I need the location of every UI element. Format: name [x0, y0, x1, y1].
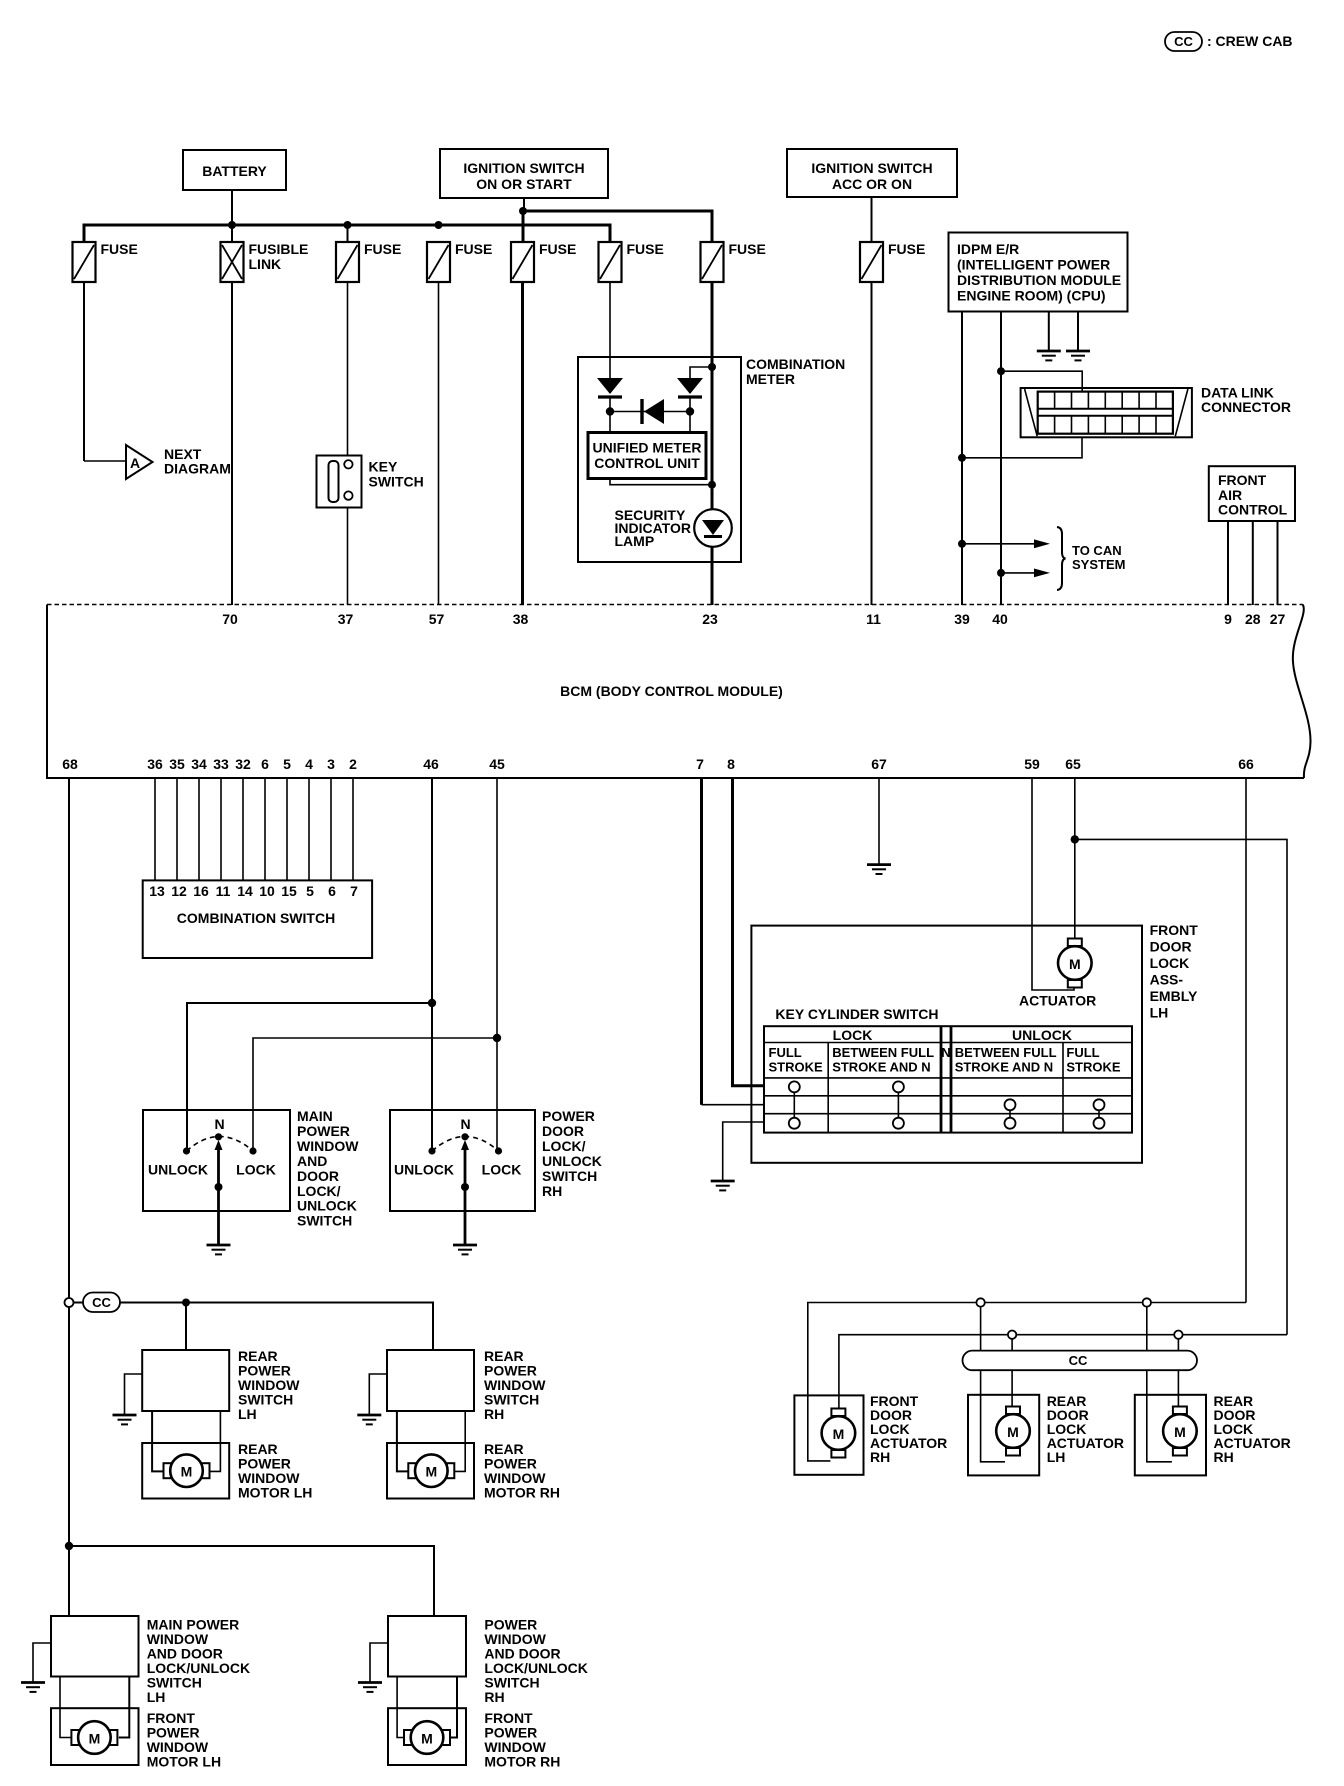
svg-text:LH: LH [1150, 1005, 1169, 1021]
svg-text:A: A [130, 455, 140, 471]
fusible link [221, 241, 309, 282]
svg-text:32: 32 [235, 756, 251, 772]
svg-text:FRONT: FRONT [1150, 922, 1199, 938]
BCM body control module box [47, 605, 1311, 779]
motor front power window LH [71, 1721, 117, 1754]
wire ignition to fuse5 [522, 211, 525, 242]
wire to next-diagram arrow [84, 460, 126, 462]
svg-text:RH: RH [870, 1449, 890, 1465]
svg-text:COMBINATION: COMBINATION [746, 356, 845, 372]
wire fuse3 stub [347, 225, 349, 242]
svg-text:FUSE: FUSE [888, 241, 925, 257]
wire IDPM ground stub 2 [1077, 312, 1079, 352]
svg-text:16: 16 [193, 883, 209, 899]
svg-text:12: 12 [171, 883, 187, 899]
wire fuse7 to pin23 [711, 282, 714, 605]
wire front air control to pin28 [1252, 521, 1254, 605]
svg-text:WINDOW: WINDOW [297, 1138, 359, 1154]
svg-text:IGNITION SWITCH: IGNITION SWITCH [811, 160, 932, 176]
svg-text:UNLOCK: UNLOCK [1012, 1027, 1072, 1043]
svg-text:65: 65 [1065, 756, 1081, 772]
node front feed junction [65, 1542, 73, 1550]
front power window motor LH box [51, 1708, 221, 1769]
wire fuse4 to pin57 [438, 282, 440, 605]
svg-text:N: N [214, 1116, 224, 1132]
svg-text:BCM (BODY CONTROL MODULE): BCM (BODY CONTROL MODULE) [560, 683, 783, 699]
ground main switch LH [21, 1683, 45, 1692]
wire key switch to pin37 [347, 508, 349, 606]
wire ignition acc feed [871, 198, 873, 242]
wire pin6 to combination switch [264, 778, 266, 880]
fuse F3 [336, 241, 401, 282]
svg-text:FUSE: FUSE [364, 241, 401, 257]
svg-text:15: 15 [281, 883, 297, 899]
legend CC crew cab [1165, 32, 1293, 51]
wire fuse8 to pin11 [871, 282, 873, 605]
motor front door lock actuator RH [822, 1409, 856, 1458]
svg-text:(INTELLIGENT POWER: (INTELLIGENT POWER [957, 257, 1110, 273]
wire IDPM to pin40 [1000, 312, 1002, 606]
node CC branch circle on pin68 wire [65, 1298, 74, 1307]
svg-text:34: 34 [191, 756, 207, 772]
IDPM E/R box [949, 233, 1128, 312]
motor rear power window LH [164, 1454, 210, 1487]
svg-text:13: 13 [149, 883, 165, 899]
svg-text:CONTROL: CONTROL [1218, 502, 1288, 518]
svg-text:FUSE: FUSE [101, 241, 138, 257]
wire diode row [610, 411, 690, 413]
svg-text:2: 2 [349, 756, 357, 772]
key switch [317, 456, 424, 508]
brace to CAN system [1057, 527, 1125, 590]
svg-text:FUSE: FUSE [729, 241, 766, 257]
svg-text:RH: RH [542, 1183, 562, 1199]
svg-text:LH: LH [238, 1406, 257, 1422]
front door lock actuator RH box [794, 1393, 947, 1475]
power window and door lock unlock switch RH box [388, 1616, 588, 1705]
node pin39 dlc junction [958, 454, 966, 462]
svg-text:MOTOR RH: MOTOR RH [484, 1485, 560, 1501]
wire pin4 to combination switch [308, 778, 310, 880]
wire control unit to pin23 line [610, 479, 712, 485]
wire meter right branch [690, 367, 712, 378]
svg-text:ACC OR ON: ACC OR ON [832, 176, 912, 192]
fuse F1 [73, 241, 138, 282]
fuse F8 [860, 241, 925, 282]
ground pin67 [867, 865, 891, 874]
wire key cylinder ground row [723, 1122, 764, 1181]
wire main switch LH to motor left [60, 1677, 72, 1738]
ground rear switch RH [357, 1415, 381, 1424]
CC crew cab marker left [83, 1293, 120, 1313]
node pin65 branch [1071, 835, 1079, 843]
svg-text:CONTROL UNIT: CONTROL UNIT [594, 455, 700, 471]
wire main switch LH to motor right [119, 1677, 130, 1738]
svg-text:RH: RH [484, 1689, 504, 1705]
wire pin68 down [68, 778, 70, 1616]
node meter top junction [708, 363, 716, 371]
wire pin32 to combination switch [242, 778, 244, 880]
svg-text:COMBINATION SWITCH: COMBINATION SWITCH [177, 910, 335, 926]
ground key cylinder switch [711, 1181, 735, 1190]
svg-text:KEY: KEY [369, 459, 398, 475]
front power window motor RH box [388, 1708, 560, 1769]
svg-text:ON OR START: ON OR START [476, 176, 572, 192]
combination switch box [143, 880, 372, 958]
wire switch RH ground stub [370, 1643, 388, 1683]
wire pin5 to combination switch [286, 778, 288, 880]
wire IDPM ground stub 1 [1048, 312, 1050, 352]
ground switch RH bottom [358, 1683, 382, 1692]
node battery bus junctions [228, 221, 443, 229]
wire IDPM to pin39 [961, 312, 963, 606]
svg-text:4: 4 [305, 756, 313, 772]
wire main switch to ground [217, 1211, 220, 1245]
ground IDPM 2 [1066, 351, 1090, 360]
svg-text:DOOR: DOOR [297, 1168, 339, 1184]
wire pin65 branch right [1075, 839, 1287, 1334]
fuse F4 [427, 241, 492, 282]
wire rear actuator RH top feed [1177, 1339, 1179, 1407]
rear power window motor LH box [142, 1441, 312, 1501]
node cc circle upper bus 2 [1143, 1298, 1151, 1306]
wire main switch LH ground stub [33, 1643, 51, 1683]
motor rear door lock actuator RH [1163, 1407, 1197, 1456]
svg-text:66: 66 [1238, 756, 1254, 772]
wire lower actuator bus [839, 1335, 1287, 1410]
svg-text:SWITCH: SWITCH [369, 474, 424, 490]
svg-text:STROKE AND N: STROKE AND N [832, 1060, 930, 1075]
wire CC oval link [74, 1302, 84, 1304]
wire pin3 to combination switch [330, 778, 332, 880]
svg-text:MOTOR RH: MOTOR RH [484, 1754, 560, 1770]
node pin45 junction [493, 1034, 501, 1042]
wire pin66 down [1245, 778, 1247, 1303]
svg-text:FRONT: FRONT [1218, 472, 1267, 488]
wire CAN arrow 1 [958, 539, 1050, 548]
svg-text:57: 57 [429, 611, 445, 627]
wire pin59 to actuator [1032, 778, 1074, 990]
ground rear switch LH [113, 1415, 137, 1424]
svg-text:FUSIBLE: FUSIBLE [249, 241, 309, 257]
svg-text:METER: METER [746, 371, 795, 387]
wire rear switch RH to motor left [397, 1411, 409, 1471]
svg-text:27: 27 [1270, 611, 1286, 627]
svg-text:LOCK/: LOCK/ [542, 1138, 586, 1154]
wire pin67 to ground [878, 778, 880, 865]
motor front power window RH [404, 1721, 450, 1754]
svg-text:SYSTEM: SYSTEM [1072, 557, 1125, 572]
svg-text:67: 67 [871, 756, 887, 772]
wire front air control to pin9 [1227, 521, 1229, 605]
svg-text:IDPM E/R: IDPM E/R [957, 241, 1019, 257]
svg-text:LH: LH [147, 1689, 166, 1705]
wire fuse3 to key switch [347, 282, 349, 456]
rear door lock actuator RH box [1135, 1393, 1291, 1475]
svg-text:CC: CC [92, 1295, 111, 1310]
svg-text:14: 14 [237, 883, 253, 899]
svg-text:N: N [460, 1116, 470, 1132]
fuse F5 [511, 241, 576, 282]
ground RH switch [453, 1245, 477, 1254]
unified meter control unit [588, 433, 706, 479]
svg-text:RH: RH [1214, 1449, 1234, 1465]
wire rear actuator LH top feed [1011, 1339, 1013, 1407]
wire rear actuator LH feed [981, 1307, 1005, 1462]
svg-text:ASS-: ASS- [1150, 972, 1184, 988]
wire ignition branch to fuse7 [523, 211, 712, 242]
wire fusible-link to pin70 [231, 282, 233, 605]
front door lock assembly LH box [751, 922, 1198, 1163]
main power window and door lock unlock switch [143, 1108, 359, 1229]
svg-text:POWER: POWER [297, 1123, 350, 1139]
wire fuse1 to next-diagram [83, 282, 85, 461]
motor actuator front door lock LH [1019, 939, 1096, 1009]
diode D1 [597, 378, 623, 397]
wire rear window feed bus [120, 1303, 433, 1351]
node control unit junction [708, 481, 716, 489]
svg-text:70: 70 [222, 611, 238, 627]
wire pin46 down [431, 778, 433, 1151]
svg-text:45: 45 [489, 756, 505, 772]
wire rear switch LH to motor left [152, 1411, 164, 1471]
wire pin34 to combination switch [198, 778, 200, 880]
key cylinder switch table [764, 1006, 1132, 1133]
motor rear power window RH [408, 1454, 454, 1487]
wire front air control to pin27 [1277, 521, 1279, 605]
svg-text:5: 5 [283, 756, 291, 772]
svg-text:6: 6 [261, 756, 269, 772]
diode D2 [677, 378, 703, 397]
svg-text:35: 35 [169, 756, 185, 772]
svg-text:BATTERY: BATTERY [202, 163, 267, 179]
svg-text:40: 40 [992, 611, 1008, 627]
ignition switch acc-or-on [787, 149, 957, 197]
wire pin7 down [700, 778, 703, 1105]
svg-text:IGNITION SWITCH: IGNITION SWITCH [463, 160, 584, 176]
svg-text:7: 7 [696, 756, 704, 772]
wire fusible-link stub [231, 225, 233, 242]
ground IDPM 1 [1037, 351, 1061, 360]
front air control [1209, 466, 1295, 521]
wire pin33 to combination switch [220, 778, 222, 880]
svg-text:LH: LH [1047, 1449, 1066, 1465]
svg-text:DOOR: DOOR [542, 1123, 584, 1139]
wire diode D1 to node [609, 397, 611, 432]
wire pin2 to combination switch [352, 778, 354, 880]
svg-text:LOCK: LOCK [482, 1162, 522, 1178]
fuse F6 [599, 241, 664, 282]
security indicator lamp [615, 507, 732, 549]
svg-text:LOCK: LOCK [833, 1027, 873, 1043]
wire switch RH to motor right [449, 1677, 457, 1738]
wire switch RH to motor left [397, 1677, 405, 1738]
wire rear switch RH to motor right [453, 1411, 465, 1471]
wire battery bus [84, 225, 610, 242]
svg-text:46: 46 [423, 756, 439, 772]
svg-text:39: 39 [954, 611, 970, 627]
wire pin46 branch to main switch unlock [187, 1003, 432, 1151]
battery [183, 150, 286, 190]
svg-text:LOCK: LOCK [1150, 955, 1190, 971]
wire upper actuator bus [808, 1303, 1246, 1461]
wire data link connector to pin39 [962, 437, 1082, 458]
svg-text:UNLOCK: UNLOCK [542, 1153, 602, 1169]
svg-text:MOTOR LH: MOTOR LH [147, 1754, 221, 1770]
wire pin35 to combination switch [176, 778, 178, 880]
svg-text:ENGINE ROOM) (CPU): ENGINE ROOM) (CPU) [957, 288, 1106, 304]
svg-text:MOTOR LH: MOTOR LH [238, 1485, 312, 1501]
wire pin7 to key cylinder row B [702, 1104, 765, 1106]
data link connector [1021, 385, 1291, 438]
rear power window motor RH box [387, 1441, 560, 1501]
svg-text:59: 59 [1024, 756, 1040, 772]
svg-text:BETWEEN FULL: BETWEEN FULL [832, 1045, 934, 1060]
node ignition branch junction [519, 207, 527, 215]
svg-text:RH: RH [484, 1406, 504, 1422]
svg-text:STROKE: STROKE [1066, 1060, 1121, 1075]
svg-text:3: 3 [327, 756, 335, 772]
svg-text:10: 10 [259, 883, 275, 899]
ignition switch on-or-start [440, 149, 608, 198]
svg-text:AIR: AIR [1218, 487, 1242, 503]
svg-text:28: 28 [1245, 611, 1261, 627]
svg-text:CC: CC [1174, 34, 1193, 49]
node pin46 junction [428, 999, 436, 1007]
svg-text:23: 23 [702, 611, 718, 627]
svg-text:ACTUATOR: ACTUATOR [1019, 993, 1096, 1009]
svg-text:BETWEEN FULL: BETWEEN FULL [955, 1045, 1057, 1060]
svg-text:STROKE: STROKE [769, 1060, 824, 1075]
wire rear switch LH drop [185, 1303, 187, 1351]
node cc circle upper bus 1 [976, 1298, 984, 1306]
wire ignition on-start feed [523, 198, 525, 211]
svg-text:STROKE AND N: STROKE AND N [955, 1060, 1053, 1075]
svg-text:FUSE: FUSE [539, 241, 576, 257]
wire CAN arrow 2 [997, 569, 1050, 578]
svg-text:DISTRIBUTION MODULE: DISTRIBUTION MODULE [957, 272, 1121, 288]
CC crew cab stadium bottom right [963, 1351, 1198, 1371]
svg-text:FULL: FULL [769, 1045, 802, 1060]
wire fuse5 to pin38 [521, 282, 524, 605]
rear door lock actuator LH box [968, 1393, 1124, 1475]
combination meter box [578, 356, 845, 562]
wire rear actuator RH feed [1147, 1307, 1172, 1462]
wire rear switch LH ground stub [125, 1374, 143, 1415]
svg-text:33: 33 [213, 756, 229, 772]
svg-text:UNIFIED METER: UNIFIED METER [593, 440, 702, 456]
motor rear door lock actuator LH [996, 1407, 1030, 1456]
svg-text:11: 11 [866, 611, 881, 627]
wire pin36 to combination switch [154, 778, 156, 880]
svg-text:FULL: FULL [1066, 1045, 1099, 1060]
svg-text:UNLOCK: UNLOCK [297, 1198, 357, 1214]
wire fuse6 to combination meter [609, 282, 611, 378]
fuse F7 [701, 241, 766, 282]
svg-text:AND: AND [297, 1153, 327, 1169]
ground main switch [207, 1245, 231, 1254]
wire battery feed [231, 190, 233, 225]
wire RH switch to ground [464, 1211, 467, 1245]
wire rear switch LH to motor right [209, 1411, 221, 1471]
node diode junctions [606, 407, 694, 415]
svg-text:TO CAN: TO CAN [1072, 543, 1122, 558]
svg-text:5: 5 [306, 883, 314, 899]
main power window and door lock unlock switch LH box [51, 1616, 250, 1705]
wire rear switch RH ground stub [369, 1374, 387, 1415]
node cc circle lower bus 2 [1174, 1331, 1182, 1339]
wire pin65 to actuator [1074, 778, 1076, 938]
wire front window feed bus [69, 1546, 434, 1616]
svg-text:CC: CC [1069, 1353, 1088, 1368]
node cc circle lower bus 1 [1008, 1331, 1016, 1339]
svg-text:8: 8 [727, 756, 735, 772]
wire pin45 branch to main switch lock [253, 1038, 497, 1151]
rear power window switch RH box [387, 1348, 546, 1422]
svg-text:UNLOCK: UNLOCK [394, 1162, 454, 1178]
svg-text:KEY CYLINDER SWITCH: KEY CYLINDER SWITCH [775, 1006, 938, 1022]
svg-text:DOOR: DOOR [1150, 939, 1192, 955]
diode D3 [642, 399, 664, 424]
svg-text:POWER: POWER [542, 1108, 595, 1124]
wire pin45 down [496, 778, 498, 1151]
svg-text:MAIN: MAIN [297, 1108, 333, 1124]
node pin40 dlc junction [997, 367, 1005, 375]
svg-text:N: N [941, 1045, 950, 1060]
svg-text:DIAGRAM: DIAGRAM [164, 461, 231, 477]
node rear feed junction [182, 1299, 190, 1307]
svg-text:68: 68 [62, 756, 78, 772]
svg-text:7: 7 [350, 883, 358, 899]
svg-text:: CREW CAB: : CREW CAB [1207, 33, 1293, 49]
svg-text:LAMP: LAMP [615, 533, 655, 549]
svg-text:EMBLY: EMBLY [1150, 988, 1198, 1004]
svg-text:CONNECTOR: CONNECTOR [1201, 399, 1291, 415]
next diagram arrow A [126, 445, 231, 479]
svg-text:11: 11 [216, 883, 231, 899]
svg-text:6: 6 [328, 883, 336, 899]
wire pin8 down [733, 778, 765, 1086]
svg-text:38: 38 [513, 611, 529, 627]
svg-text:LINK: LINK [249, 256, 282, 272]
svg-text:37: 37 [338, 611, 354, 627]
svg-text:FUSE: FUSE [455, 241, 492, 257]
power door lock unlock switch RH [390, 1108, 602, 1211]
svg-text:UNLOCK: UNLOCK [148, 1162, 208, 1178]
rear power window switch LH box [142, 1348, 300, 1422]
svg-text:36: 36 [147, 756, 163, 772]
wire pin40 to data link connector [1001, 371, 1082, 391]
svg-text:FUSE: FUSE [627, 241, 664, 257]
svg-text:SWITCH: SWITCH [542, 1168, 597, 1184]
svg-text:LOCK: LOCK [236, 1162, 276, 1178]
svg-text:9: 9 [1224, 611, 1232, 627]
svg-text:SWITCH: SWITCH [297, 1213, 352, 1229]
wire diode D2 to node [689, 397, 691, 432]
